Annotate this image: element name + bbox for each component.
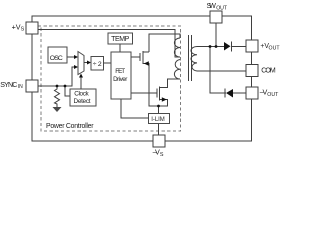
svg-text:FET: FET [115, 68, 125, 75]
svg-text:OUT: OUT [267, 92, 279, 98]
svg-text:I-LIM: I-LIM [151, 117, 165, 123]
svg-text:Clock: Clock [74, 90, 89, 97]
svg-text:Detect: Detect [74, 98, 91, 105]
svg-text:COM: COM [261, 67, 276, 74]
svg-text:TEMP: TEMP [111, 36, 130, 43]
svg-text:Power Controller: Power Controller [46, 123, 94, 130]
svg-text:SW: SW [207, 1, 217, 10]
svg-text:–V: –V [153, 148, 160, 157]
svg-text:OUT: OUT [269, 45, 281, 51]
svg-text:OUT: OUT [216, 6, 228, 12]
svg-text:S: S [160, 152, 164, 158]
svg-text:OSC: OSC [50, 55, 63, 62]
svg-text:IN: IN [18, 84, 23, 90]
svg-text:÷ 2: ÷ 2 [93, 61, 102, 68]
svg-text:SYNC: SYNC [0, 82, 17, 89]
svg-text:Driver: Driver [113, 76, 127, 83]
svg-text:S: S [21, 27, 25, 33]
svg-text:+V: +V [12, 22, 21, 31]
